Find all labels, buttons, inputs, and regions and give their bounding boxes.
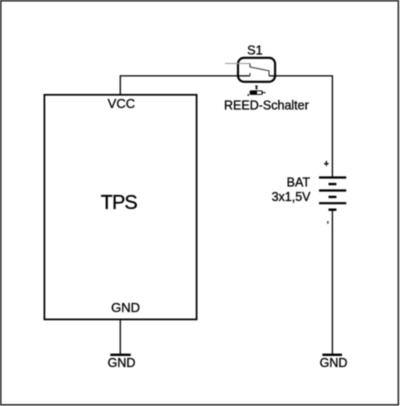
svg-text:GND: GND bbox=[111, 300, 140, 315]
svg-text:TPS: TPS bbox=[101, 192, 138, 214]
svg-text:VCC: VCC bbox=[108, 96, 135, 111]
svg-text:GND: GND bbox=[320, 356, 348, 370]
svg-text:GND: GND bbox=[108, 356, 136, 370]
svg-text:REED-Schalter: REED-Schalter bbox=[224, 99, 309, 113]
svg-text:BAT: BAT bbox=[287, 176, 311, 190]
svg-text:3x1,5V: 3x1,5V bbox=[272, 190, 312, 204]
svg-text:S1: S1 bbox=[247, 42, 263, 57]
